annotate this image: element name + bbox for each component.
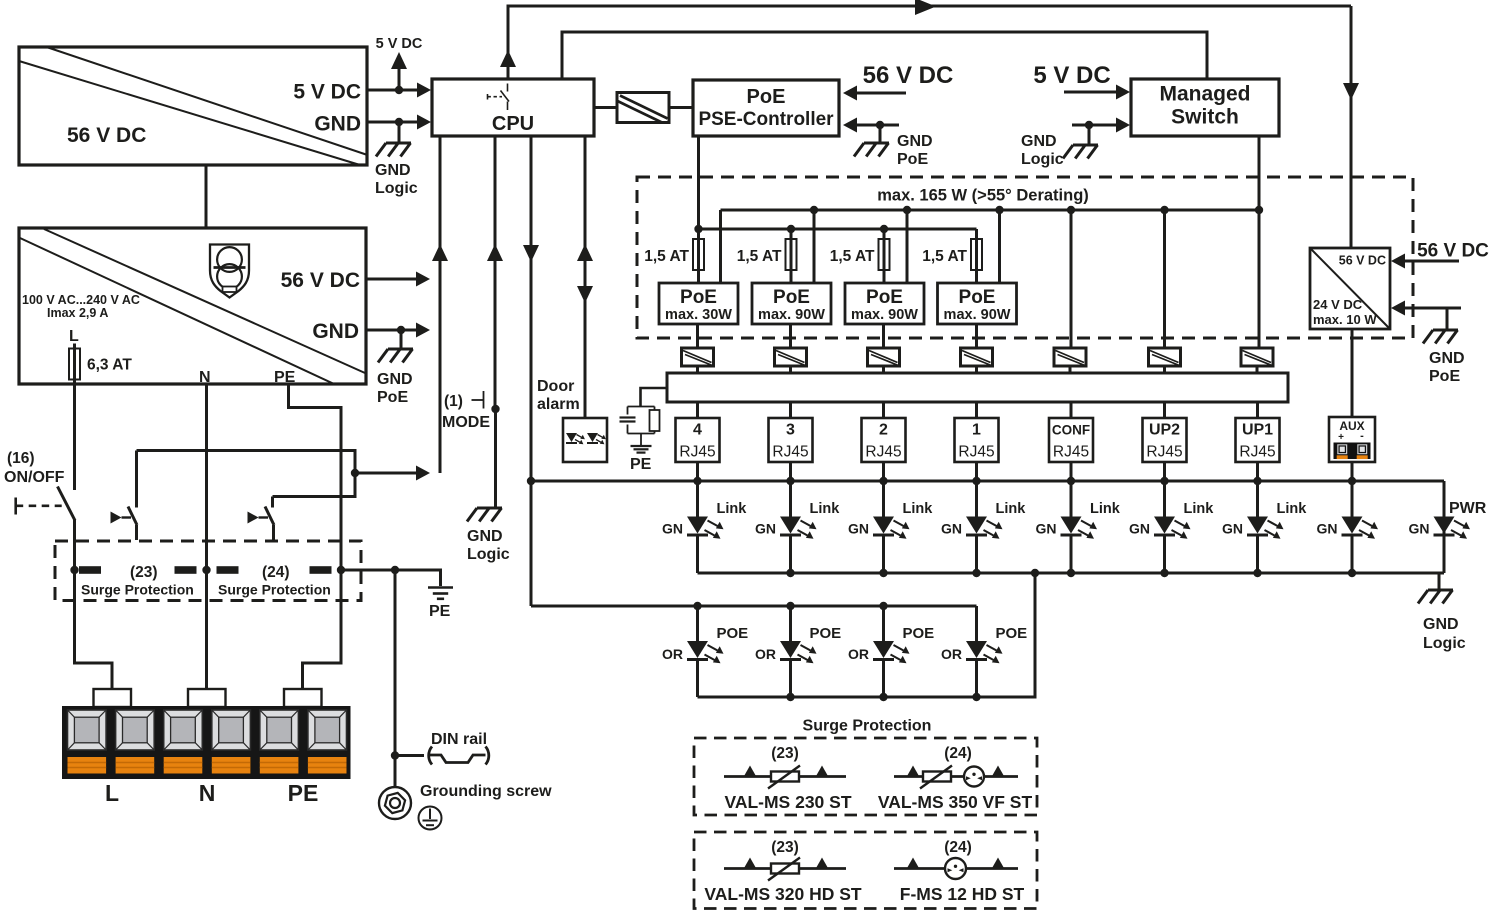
svg-text:PoE: PoE (1429, 368, 1460, 385)
svg-text:RJ45: RJ45 (1239, 444, 1275, 461)
wire CPU LED rail line (523, 136, 539, 606)
svg-text:PoE: PoE (773, 287, 810, 308)
svg-text:GN: GN (848, 521, 869, 537)
PoE injector port 1 (max. 90W) (938, 283, 1017, 324)
svg-text:56 V DC: 56 V DC (281, 269, 360, 292)
svg-text:Link: Link (996, 501, 1027, 517)
svg-text:RJ45: RJ45 (1053, 444, 1089, 461)
label GND Logic (375, 162, 418, 197)
svg-text:max. 10 W: max. 10 W (1313, 312, 1377, 327)
wire PE to grounding screw (391, 570, 399, 787)
wire fuse 3 leads (883, 229, 886, 283)
wire transformer 6 to connector bar (1163, 366, 1166, 373)
wire GND PoE output (366, 323, 430, 349)
wire bar to RJ45 4 (696, 402, 699, 418)
wire LED D3 green Link leads (882, 481, 885, 573)
wire Managed Switch to UP1 transformer (1258, 136, 1261, 348)
labels L N PE terminals (105, 780, 318, 806)
wire bar to RJ45 UP2 (1163, 402, 1166, 418)
wire legend VAL-MS 350 VF ST (894, 766, 1018, 778)
wire surge status to CPU (137, 451, 360, 497)
svg-text:VAL-MS 350 VF ST: VAL-MS 350 VF ST (878, 792, 1033, 812)
svg-text:L: L (105, 780, 119, 806)
wire POE LED 1 bottom lead (975, 661, 978, 698)
wire AUX to LED rail (1351, 462, 1354, 481)
svg-text:RJ45: RJ45 (865, 444, 901, 461)
ground GND Logic (LED) (1418, 590, 1453, 604)
wire PoE port 3 to transformer (789, 324, 792, 348)
door alarm sensor LEDs (563, 418, 607, 462)
wire legend VAL-MS 230 ST (724, 766, 846, 778)
svg-text:Surge Protection: Surge Protection (81, 582, 194, 598)
varistor RV3 VAL-MS 320 HD ST (768, 858, 800, 881)
label VAL-MS 350 VF ST (878, 792, 1033, 812)
svg-text:UP2: UP2 (1149, 422, 1180, 439)
svg-text:max. 165 W (>55° Derating): max. 165 W (>55° Derating) (877, 187, 1089, 205)
wire port bus to UP2 transformer (1163, 210, 1166, 348)
wire PSE controller to PoE power bus (697, 136, 700, 229)
wire RJ45 2 to LED rail (882, 462, 885, 481)
svg-text:max. 90W: max. 90W (944, 307, 1011, 323)
label VAL-MS 320 HD ST (704, 884, 862, 904)
label GN 4 (941, 521, 962, 537)
label GN 9 (1409, 521, 1430, 537)
switch S2 ON/OFF main (16, 487, 75, 521)
svg-text:PoE: PoE (959, 287, 996, 308)
fuse F3 1,5 AT port 3 (786, 239, 797, 270)
label 56 V DC input (863, 62, 954, 89)
svg-text:Surge Protection: Surge Protection (803, 718, 932, 735)
label (16) ON/OFF (4, 450, 65, 486)
wire CPU ON/OFF sense riser (432, 136, 448, 473)
label GND PoE (377, 371, 413, 406)
wire LED return rail (698, 569, 1445, 577)
svg-text:CONF: CONF (1052, 423, 1090, 438)
label Link 3 (903, 501, 934, 517)
svg-text:GN: GN (1222, 521, 1243, 537)
label VAL-MS 230 ST (724, 792, 851, 812)
wire CPU door alarm line (577, 136, 593, 418)
svg-text:PoE: PoE (747, 86, 786, 108)
svg-text:POE: POE (903, 625, 935, 642)
dashed box max. 165 W PoE budget (637, 177, 1413, 338)
svg-text:Logic: Logic (1423, 635, 1466, 652)
wire POE LED 2 bottom lead (882, 661, 885, 698)
wire fuse 2 leads (790, 229, 793, 283)
svg-text:POE: POE (810, 625, 842, 642)
svg-text:PE: PE (288, 780, 319, 806)
svg-text:(24): (24) (944, 745, 972, 762)
svg-text:PoE: PoE (377, 389, 408, 406)
svg-text:(23): (23) (771, 839, 799, 856)
LED D1 green Link (687, 517, 724, 539)
svg-text:GND: GND (375, 162, 411, 179)
wire L to terminal (75, 570, 113, 689)
relay K1 surge remote contact (23) (111, 507, 138, 541)
svg-text:UP1: UP1 (1242, 422, 1273, 439)
svg-text:(23): (23) (130, 564, 158, 581)
fuse F4 1,5 AT port 2 (879, 239, 890, 270)
svg-text:VAL-MS 320 HD ST: VAL-MS 320 HD ST (704, 884, 862, 904)
capacitor C1 / resistor R1 shield RC to PE (620, 407, 660, 446)
wire POE LED supply rail (531, 602, 977, 610)
label Link 1 (717, 501, 748, 517)
svg-text:Link: Link (1184, 501, 1215, 517)
label DIN rail (431, 731, 487, 748)
label POE 4 (717, 625, 749, 642)
wire isolator to PSE controller (669, 106, 693, 109)
svg-text:GN: GN (1317, 521, 1338, 537)
svg-text:F-MS 12 HD ST: F-MS 12 HD ST (900, 884, 1025, 904)
ground GND Logic (MODE) (467, 508, 502, 522)
label POE 2 (903, 625, 935, 642)
connector bar (RJ45 magnetics block) (667, 373, 1288, 402)
label 1,5 AT port 1 (922, 248, 967, 265)
wire surge protection PE rail (70, 566, 440, 586)
connector RJ45 CONF (1049, 418, 1093, 462)
svg-text:PE: PE (274, 369, 296, 386)
wire GND PoE into PSE controller (843, 118, 899, 143)
LED D9 green PWR (1434, 517, 1471, 539)
svg-text:PoE: PoE (897, 151, 928, 168)
transformer T1 isolation CPU/PSE (617, 93, 669, 123)
svg-text:RJ45: RJ45 (772, 444, 808, 461)
svg-text:Managed: Managed (1159, 83, 1250, 106)
LED D11 orange POE 3 (780, 641, 817, 663)
label (1) MODE (442, 393, 490, 431)
label 1,5 AT port 2 (830, 248, 875, 265)
wire N to terminal (205, 570, 208, 689)
wire RJ45 3 to LED rail (789, 462, 792, 481)
svg-text:OR: OR (755, 646, 776, 662)
svg-text:+: + (1338, 432, 1344, 443)
wire return rail to ground (1438, 573, 1441, 589)
svg-text:PE: PE (429, 603, 451, 620)
svg-text:DIN rail: DIN rail (431, 731, 487, 748)
svg-text:Logic: Logic (1021, 151, 1064, 168)
PoE injector port 2 (max. 90W) (845, 283, 924, 324)
svg-text:Imax 2,9 A: Imax 2,9 A (47, 306, 108, 320)
svg-text:Link: Link (1277, 501, 1308, 517)
label OR 3 (755, 646, 776, 662)
svg-text:24 V DC: 24 V DC (1313, 297, 1363, 312)
label GND Logic MS (1021, 133, 1064, 168)
wire PoE power bus (fused) (694, 225, 976, 233)
wire LED D7 green Link leads (1256, 481, 1259, 573)
wire fuse 4 leads (975, 229, 978, 283)
wire L switch to surge rail (73, 520, 76, 570)
power supply U1 56 V DC to 5 V DC converter (19, 47, 367, 165)
svg-text:Link: Link (903, 501, 934, 517)
wire between power supplies (205, 165, 208, 228)
svg-text:PWR: PWR (1449, 500, 1487, 517)
svg-text:5 V DC: 5 V DC (1033, 62, 1110, 89)
label GN 3 (848, 521, 869, 537)
label Link 2 (810, 501, 841, 517)
wire to DIN rail (395, 754, 424, 757)
ground GND Logic (left) (376, 143, 411, 157)
wire switch port bus (721, 206, 1264, 214)
label 5 V DC input MS (1033, 62, 1110, 89)
svg-text:VAL-MS 230 ST: VAL-MS 230 ST (724, 792, 851, 812)
label legend Surge Protection (803, 718, 932, 735)
svg-text:56 V DC: 56 V DC (863, 62, 954, 89)
transformer T7 port isolation (1149, 348, 1181, 366)
connector AUX 24 V output (1329, 417, 1375, 462)
relay K2 surge remote contact (24) (248, 507, 275, 541)
transformer T2 port isolation (682, 348, 714, 366)
wire legend VAL-MS 320 HD ST (724, 858, 846, 870)
label legend (24) b (944, 839, 972, 856)
LED D12 orange POE 2 (873, 641, 910, 663)
wire top line 1 down to DC/DC 24V converter (1343, 6, 1359, 248)
svg-text:Grounding screw: Grounding screw (420, 783, 552, 800)
svg-text:-: - (1360, 430, 1364, 442)
wire relay 24 top lead (271, 497, 274, 508)
spark gap GD2 F-MS 12 HD ST (945, 858, 966, 879)
svg-text:1: 1 (972, 422, 981, 439)
wire POE LED 4 top lead (696, 606, 699, 641)
svg-text:(16): (16) (7, 450, 35, 467)
svg-text:100 V AC...240 V AC: 100 V AC...240 V AC (22, 293, 140, 307)
svg-text:1,5 AT: 1,5 AT (737, 248, 782, 265)
svg-text:MODE: MODE (442, 414, 490, 431)
svg-text:Link: Link (717, 501, 748, 517)
label max. 165 W derating (877, 187, 1089, 205)
wire RJ45 4 to LED rail (696, 462, 699, 481)
label (23) Surge Protection (81, 564, 194, 598)
svg-text:Switch: Switch (1171, 106, 1239, 129)
svg-text:5 V DC: 5 V DC (293, 81, 361, 104)
svg-text:RJ45: RJ45 (1146, 444, 1182, 461)
label PE shield (630, 456, 652, 473)
Managed Switch U5 (1131, 79, 1279, 136)
svg-text:GND: GND (314, 113, 361, 136)
wire PWR LED branch (1443, 481, 1446, 573)
svg-text:GND: GND (1423, 616, 1459, 633)
wire 56 V DC into converter (1391, 254, 1459, 269)
label legend (23) a (771, 745, 799, 762)
svg-text:max. 30W: max. 30W (665, 307, 732, 323)
svg-text:Link: Link (810, 501, 841, 517)
wire bar to RJ45 1 (975, 402, 978, 418)
wire POE LED 1 top lead (975, 606, 978, 641)
label legend (24) a (944, 745, 972, 762)
svg-text:PoE: PoE (680, 287, 717, 308)
LED D6 green Link (1154, 517, 1191, 539)
LED D2 green Link (780, 517, 817, 539)
label Link 5 (1090, 501, 1121, 517)
svg-text:PoE: PoE (866, 287, 903, 308)
connector RJ45 3 (769, 418, 813, 462)
wire CPU MODE line (487, 136, 503, 409)
label Grounding screw (420, 783, 552, 800)
svg-text:POE: POE (717, 625, 749, 642)
wire transformer 7 to connector bar (1256, 366, 1259, 373)
varistor RV2 VAL-MS 350 VF ST (920, 766, 952, 789)
switch S1 MODE pushbutton (472, 391, 500, 413)
svg-text:GND: GND (897, 133, 933, 150)
wire 5 V DC into Managed Switch (1064, 85, 1130, 100)
wire LED D4 green Link leads (975, 481, 978, 573)
svg-text:56 V DC: 56 V DC (67, 124, 146, 147)
wire transformer 4 to connector bar (975, 366, 978, 373)
spark gap GD1 VAL-MS 350 VF ST (964, 767, 984, 787)
svg-text:GND: GND (1021, 133, 1057, 150)
ground GND Logic (MS) (1063, 145, 1098, 159)
transformer T6 port isolation (1054, 348, 1086, 366)
label PE surge (429, 603, 451, 620)
connector RJ45 1 (955, 418, 999, 462)
wire port bus to PoE port 3 (813, 210, 816, 283)
dashed box legend ST types (694, 738, 1037, 815)
wire POE LED 4 bottom lead (696, 661, 699, 698)
wire bar shield to PE network (641, 388, 668, 406)
wire transformer 2 to connector bar (789, 366, 792, 373)
wire LED D9 green PWR leads (1443, 481, 1446, 573)
svg-text:Surge Protection: Surge Protection (218, 582, 331, 598)
svg-text:(1): (1) (444, 393, 463, 410)
svg-text:6,3 AT: 6,3 AT (87, 357, 132, 374)
svg-text:GND: GND (467, 528, 503, 545)
label F-MS 12 HD ST (900, 884, 1025, 904)
connector RJ45 4 (676, 418, 720, 462)
connector RJ45 2 (862, 418, 906, 462)
LED D10 orange POE 4 (687, 641, 724, 663)
LED D5 green Link (1061, 517, 1098, 539)
label POE 1 (996, 625, 1028, 642)
svg-text:GN: GN (1036, 521, 1057, 537)
svg-text:3: 3 (786, 422, 795, 439)
svg-text:4: 4 (693, 422, 702, 439)
label GN 5 (1036, 521, 1057, 537)
svg-text:alarm: alarm (537, 396, 580, 413)
wire bar to RJ45 UP1 (1256, 402, 1259, 418)
fuse F2 1,5 AT port 4 (693, 239, 704, 270)
svg-text:N: N (199, 369, 211, 386)
svg-text:56 V DC: 56 V DC (1339, 254, 1386, 268)
svg-text:L: L (69, 328, 79, 345)
wire RJ45 UP1 to LED rail (1256, 462, 1259, 481)
svg-text:5 V DC: 5 V DC (376, 36, 423, 52)
wire LED D5 green Link leads (1070, 481, 1073, 573)
label OR 4 (662, 646, 683, 662)
wire POE LED 2 top lead (882, 606, 885, 641)
PoE PSE-Controller U4 (693, 80, 839, 136)
ground GND PoE (converter) (1423, 330, 1458, 344)
svg-text:Link: Link (1090, 501, 1121, 517)
wire transformer 1 to connector bar (696, 366, 699, 373)
svg-text:Logic: Logic (467, 546, 510, 563)
svg-text:2: 2 (879, 422, 888, 439)
svg-text:Logic: Logic (375, 180, 418, 197)
wire fuse 1 leads (697, 229, 700, 283)
node 5 V DC (376, 36, 423, 52)
grounding screw (379, 787, 411, 819)
wire port bus to PoE port 4 (719, 210, 722, 283)
label POE 3 (810, 625, 842, 642)
protective earth symbol (419, 807, 442, 830)
wire port bus to CONF transformer (1070, 210, 1073, 348)
CPU U3 (432, 79, 594, 136)
label GN 7 (1222, 521, 1243, 537)
PoE injector port 4 (max. 30W) (659, 283, 738, 324)
label Link 7 (1277, 501, 1308, 517)
svg-text:GND: GND (377, 371, 413, 388)
power supply U6 56 V DC to 24 V DC (1310, 248, 1390, 329)
wire 5 V DC output to CPU (367, 52, 431, 98)
svg-text:ON/OFF: ON/OFF (4, 469, 65, 486)
ground GND PoE (left) (378, 349, 413, 363)
dashed box legend HD types (694, 832, 1037, 909)
label Link 6 (1184, 501, 1215, 517)
label GND Logic MODE (467, 528, 510, 563)
transformer T3 port isolation (775, 348, 807, 366)
svg-text:1,5 AT: 1,5 AT (644, 248, 689, 265)
ground PE (shield) (631, 446, 652, 453)
wire transformer 3 to connector bar (882, 366, 885, 373)
wire port bus to PoE port 1 (998, 210, 1001, 283)
label GND PoE PSE (897, 133, 933, 168)
wire RJ45 UP2 to LED rail (1163, 462, 1166, 481)
varistor RV1 VAL-MS 230 ST (768, 766, 800, 789)
svg-text:POE: POE (996, 625, 1028, 642)
svg-text:1,5 AT: 1,5 AT (922, 248, 967, 265)
wire 56 V DC into PSE controller (843, 86, 906, 101)
wire bar to RJ45 CONF (1070, 402, 1073, 418)
wire port bus to PoE port 2 (906, 210, 909, 283)
wire PE from supply (289, 384, 342, 570)
wire CPU to isolator (594, 106, 617, 109)
svg-text:max. 90W: max. 90W (851, 307, 918, 323)
ground GND PoE (PSE) (854, 143, 889, 157)
svg-text:GND: GND (1429, 350, 1465, 367)
fuse F5 1,5 AT port 1 (971, 239, 982, 270)
svg-text:GN: GN (1129, 521, 1150, 537)
fuse F1 6,3 AT (69, 344, 80, 380)
label GND Logic LED (1423, 616, 1466, 652)
wire PoE port 2 to transformer (882, 324, 885, 348)
svg-text:RJ45: RJ45 (958, 444, 994, 461)
svg-text:OR: OR (941, 646, 962, 662)
wire bar to RJ45 3 (789, 402, 792, 418)
svg-text:N: N (199, 780, 216, 806)
power supply U2 AC/DC 56 V DC (19, 228, 366, 386)
terminal block L N PE (62, 689, 351, 779)
wire 56 V DC output (366, 272, 430, 287)
connector RJ45 UP2 (1143, 418, 1187, 462)
transformer T5 port isolation (961, 348, 993, 366)
wire PoE port 4 to transformer (696, 324, 699, 348)
label 6,3 AT (87, 357, 132, 374)
svg-text:(24): (24) (944, 839, 972, 856)
wire RJ45 1 to LED rail (975, 462, 978, 481)
svg-text:max. 90W: max. 90W (758, 307, 825, 323)
transformer T8 port isolation (1241, 348, 1273, 366)
LED D3 green Link (873, 517, 910, 539)
svg-text:PSE-Controller: PSE-Controller (698, 109, 834, 130)
svg-text:(23): (23) (771, 745, 799, 762)
wire surge status arrow into CPU riser (355, 466, 430, 481)
wire N from supply (205, 384, 208, 570)
svg-text:(24): (24) (262, 564, 290, 581)
transformer T4 port isolation (868, 348, 900, 366)
label PWR (1449, 500, 1487, 517)
svg-text:RJ45: RJ45 (679, 444, 715, 461)
label GN 6 (1129, 521, 1150, 537)
ground PE (surge) (428, 588, 453, 599)
wire POE LED return rail (698, 573, 1036, 701)
